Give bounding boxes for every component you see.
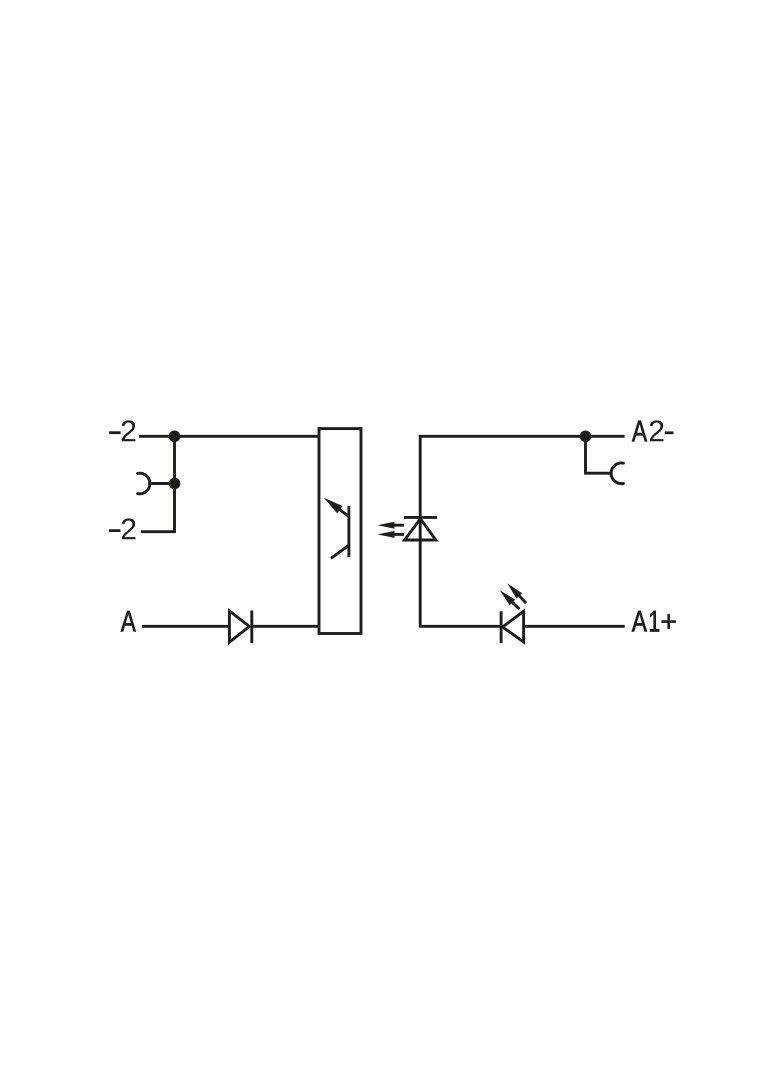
terminal label -2 (top left) — [122, 420, 136, 441]
minus sign of top-left -2 label — [109, 431, 120, 434]
LED emission arrow (upper right) — [507, 583, 526, 603]
terminal label -2 (bottom left) — [122, 518, 136, 539]
wire: A line from label to diode — [142, 625, 229, 628]
light arrow (upper) from LED into box — [378, 522, 405, 529]
wire: A line from diode to optocoupler box — [252, 625, 319, 628]
junction dot (clamp stub / vertical branch) — [169, 478, 181, 490]
wire: right circuit L-run (top-right corner down to A1 line) — [420, 436, 624, 626]
LED emission arrow (lower left) — [500, 590, 520, 609]
cage clamp contact symbol (right, open half-circle) — [611, 463, 623, 484]
wire: stub from cage-clamp to vertical branch — [148, 482, 174, 485]
minus sign of A2- label — [665, 431, 674, 434]
wire: left vertical branch down to bottom -2 stub — [141, 436, 175, 531]
diode V1 on A line (anode left, cathode right) — [229, 611, 251, 644]
terminal label A1+ (bottom right) — [632, 611, 676, 632]
wire: top-left horizontal from -2 to optocoupler box — [139, 435, 319, 438]
wire: from indicator LED to A1+ label — [524, 625, 625, 628]
terminal label A2- (top right) — [632, 420, 664, 441]
wire: clamp branch down and right (top right) — [586, 436, 612, 473]
phototransistor inside box — [324, 498, 349, 559]
junction dot (top-left wire / vertical branch) — [169, 431, 181, 443]
junction dot (A2 wire / clamp branch) — [580, 431, 592, 443]
terminal label A (bottom left) — [121, 611, 136, 632]
optocoupler U1 receiver box — [319, 429, 361, 634]
optocoupler emitter LED (on vertical wire, cathode up) — [404, 517, 437, 540]
cage clamp contact symbol (left, open half-circle) — [138, 473, 150, 494]
minus sign of bottom-left -2 label — [109, 529, 120, 532]
light arrow (lower) from LED into box — [378, 531, 405, 538]
indicator LED on A1+ line (cathode left, pointing left) — [501, 611, 523, 643]
